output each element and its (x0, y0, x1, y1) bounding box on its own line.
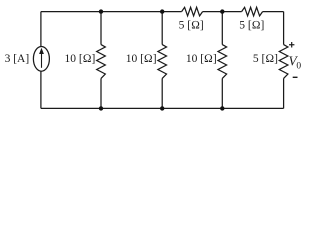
resistor R3 10[Ω] (218, 45, 227, 79)
wire left: top corner down to source (40, 12, 42, 47)
output polarity plus (289, 44, 294, 46)
wire: R1 down to bottom (100, 78, 102, 108)
wire left: source down to bottom corner (40, 71, 42, 108)
wire right: top corner down to R4 (283, 12, 285, 45)
junction dot bottom 1 (99, 106, 103, 110)
wire top: R5 to R6 zigzag start (203, 11, 242, 13)
wire right: R4 down to bottom corner (283, 78, 285, 108)
svg-text:5 [Ω]: 5 [Ω] (179, 20, 204, 32)
resistor R1 10[Ω] (97, 45, 106, 79)
svg-text:0: 0 (296, 62, 301, 72)
wire: node B stub down (161, 12, 163, 45)
resistor R2 10[Ω] (158, 45, 167, 79)
wire top: left corner to node B (41, 11, 182, 13)
svg-text:10 [Ω]: 10 [Ω] (65, 53, 96, 65)
node A junction dot (top) (99, 9, 103, 13)
wire: node C stub down (221, 12, 223, 45)
resistor R4 5[Ω] (279, 45, 288, 79)
wire top: R6 to right corner (263, 11, 284, 13)
wire: R2 down to bottom (161, 78, 163, 108)
junction dot bottom 2 (160, 106, 164, 110)
wire bottom (41, 107, 284, 109)
svg-text:5 [Ω]: 5 [Ω] (253, 53, 278, 65)
node C junction dot (top) (220, 9, 224, 13)
output polarity minus (293, 76, 298, 78)
wire: node A stub down (100, 12, 102, 45)
svg-text:3 [A]: 3 [A] (5, 53, 30, 65)
junction dot bottom 3 (220, 106, 224, 110)
current source I1 3[A] (33, 47, 49, 72)
svg-text:10 [Ω]: 10 [Ω] (186, 53, 217, 65)
svg-text:10 [Ω]: 10 [Ω] (126, 53, 157, 65)
resistor R6 5[Ω] horizontal (242, 7, 263, 16)
node B junction dot (top) (160, 9, 164, 13)
wire: R3 down to bottom (221, 78, 223, 108)
resistor R5 5[Ω] horizontal (182, 7, 203, 16)
svg-text:5 [Ω]: 5 [Ω] (239, 20, 264, 32)
